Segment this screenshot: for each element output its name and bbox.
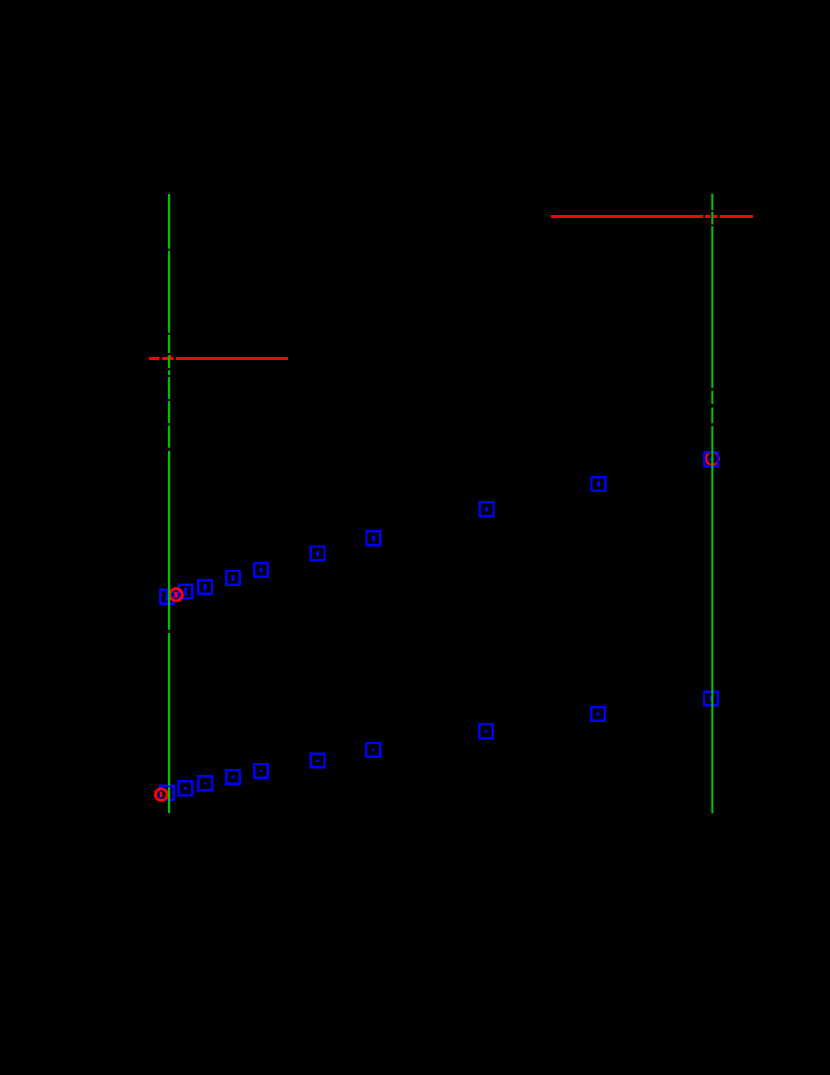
reference point C3: red circle marker with error bar xyxy=(706,452,719,465)
data point U6: blue square marker with error bar xyxy=(311,547,325,561)
data point U4: blue square marker with error bar xyxy=(226,571,240,585)
data point U9: blue square marker with error bar xyxy=(592,477,606,491)
data point L7: blue square marker with error bar xyxy=(366,743,380,757)
data point U2: blue square marker with error bar xyxy=(179,585,193,599)
data point L9: blue square marker with error bar xyxy=(591,707,605,721)
data point U8: blue square marker with error bar xyxy=(480,502,494,516)
data point L3: blue square marker with error bar xyxy=(198,776,212,790)
green vertical line 2 (right): vertical dashed green line x=712.35 xyxy=(711,194,713,814)
green vertical line 1 (left): vertical dashed green line x=169.05 xyxy=(168,194,170,813)
red peak at left crossing xyxy=(167,354,173,357)
data point L6: blue square marker with error bar xyxy=(311,754,325,768)
reference point C2: red circle marker with error bar xyxy=(155,789,167,801)
data point L1: blue square marker with error bar xyxy=(160,786,174,800)
reference point C1: red circle marker with error bar xyxy=(170,589,182,601)
data point L5: blue square marker with error bar xyxy=(254,764,268,778)
data point L8: blue square marker with error bar xyxy=(479,724,493,738)
red horizontal line (right): solid-then-dashed at y=216.4 xyxy=(551,215,753,218)
data point U1: blue square marker with error bar xyxy=(160,590,174,604)
data point U10: blue square marker with error bar xyxy=(704,452,718,466)
data point L10: blue square marker with error bar xyxy=(704,692,718,706)
red horizontal line (left): dashed-then-solid at y=358.45 xyxy=(149,357,288,360)
data point U5: blue square marker with error bar xyxy=(254,563,268,577)
data point U3: blue square marker with error bar xyxy=(198,580,212,594)
data point U7: blue square marker with error bar xyxy=(367,531,381,545)
data point L2: blue square marker with error bar xyxy=(179,781,193,795)
data point L4: blue square marker with error bar xyxy=(226,770,240,784)
